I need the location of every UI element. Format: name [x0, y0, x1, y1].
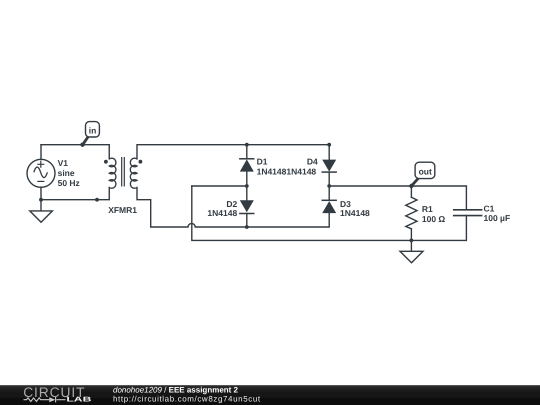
svg-text:1N4148: 1N4148 — [340, 208, 370, 218]
svg-text:1N4148: 1N4148 — [207, 208, 237, 218]
svg-text:D4: D4 — [307, 157, 318, 167]
svg-text:V1: V1 — [58, 158, 69, 168]
svg-text:50 Hz: 50 Hz — [58, 178, 80, 188]
svg-text:C1: C1 — [484, 203, 495, 213]
svg-text:LAB: LAB — [66, 397, 91, 404]
svg-text:R1: R1 — [422, 204, 433, 214]
svg-text:in: in — [89, 125, 97, 135]
svg-text:100 Ω: 100 Ω — [422, 214, 446, 224]
svg-text:http://circuitlab.com/cw8zg74u: http://circuitlab.com/cw8zg74un5cut — [113, 395, 261, 404]
svg-text:1N41481N4148: 1N41481N4148 — [257, 167, 317, 177]
svg-text:D1: D1 — [257, 157, 268, 167]
svg-text:donohoe1209 / EEE assignment 2: donohoe1209 / EEE assignment 2 — [113, 385, 239, 394]
svg-text:sine: sine — [58, 168, 75, 178]
svg-text:out: out — [419, 167, 432, 177]
svg-text:100 µF: 100 µF — [484, 213, 511, 223]
svg-text:XFMR1: XFMR1 — [108, 205, 137, 215]
